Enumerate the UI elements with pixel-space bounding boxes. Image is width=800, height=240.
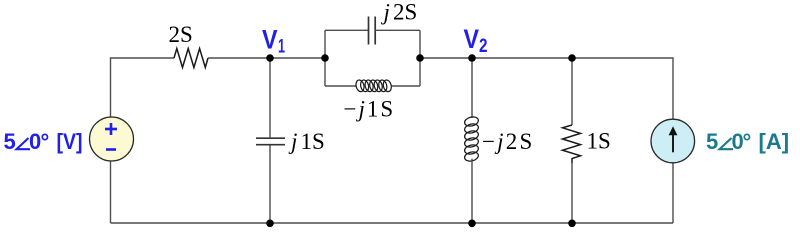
capacitor C j1S plates xyxy=(256,138,285,145)
angle symbol for [A] label xyxy=(720,138,734,149)
svg-text:°: ° xyxy=(41,129,50,154)
svg-text:0: 0 xyxy=(29,129,41,154)
wire V1 branch lower xyxy=(269,146,271,224)
inductor L -j2S coil xyxy=(464,116,480,163)
node V1 junction dot xyxy=(266,54,274,62)
label 5 angle 0 [A] xyxy=(706,129,789,154)
wire V1 to parallel block left xyxy=(270,57,325,59)
svg-text:[V]: [V] xyxy=(57,129,83,154)
wire 1S branch upper xyxy=(571,58,573,125)
svg-text:2S: 2S xyxy=(169,22,193,47)
svg-text:2S: 2S xyxy=(393,0,417,25)
wire parallel block right vertical xyxy=(419,30,421,86)
wire 1S node to top-right corner xyxy=(572,58,673,119)
node top 1S junction dot xyxy=(568,54,576,62)
voltage source VS circle xyxy=(90,117,134,161)
node bottom 1S junction dot xyxy=(568,220,576,228)
wire block right node to V2 xyxy=(420,57,472,59)
svg-text:2: 2 xyxy=(479,36,488,57)
wire V2 branch lower xyxy=(471,159,473,223)
svg-text:[A]: [A] xyxy=(759,129,790,154)
wire bottom branch right lead xyxy=(391,85,420,87)
inductor L -j1S coil xyxy=(355,79,393,92)
node bottom V2 junction dot xyxy=(468,220,476,228)
current source IS circle xyxy=(651,119,695,163)
svg-text:1S: 1S xyxy=(301,129,325,154)
wire bottom rail xyxy=(111,222,674,224)
resistor R 1S zigzag xyxy=(563,125,581,163)
svg-text:V: V xyxy=(464,24,480,54)
wire parallel block left vertical xyxy=(324,30,326,86)
current source arrow xyxy=(672,134,674,152)
node bottom V1 junction dot xyxy=(266,220,274,228)
svg-text:5: 5 xyxy=(706,129,718,154)
node block-left junction dot xyxy=(321,54,329,62)
wire V2 to 1S node xyxy=(472,57,572,59)
wire 1S branch lower xyxy=(571,163,573,223)
capacitor C j2S plates xyxy=(369,17,376,45)
node V2 junction dot xyxy=(468,54,476,62)
wire top-left: corner to resistor xyxy=(111,58,175,117)
voltage source minus sign xyxy=(106,148,116,151)
wire right vertical below source xyxy=(672,163,674,223)
svg-text:V: V xyxy=(262,25,278,55)
wire bottom branch left lead xyxy=(325,85,357,87)
voltage source plus sign xyxy=(105,123,117,135)
wire top branch right lead xyxy=(375,29,420,31)
wire V2 branch upper xyxy=(471,58,473,118)
svg-text:1S: 1S xyxy=(587,129,611,154)
svg-text:°: ° xyxy=(743,129,752,154)
angle symbol for [V] label xyxy=(17,138,31,149)
resistor R 2S zigzag xyxy=(174,49,208,68)
label 5 angle 0 [V] xyxy=(4,129,83,154)
svg-text:−j1S: −j1S xyxy=(344,97,396,122)
svg-text:−j2S: −j2S xyxy=(482,129,534,154)
wire left vertical below source xyxy=(110,162,112,224)
wire V1 branch upper xyxy=(269,58,271,137)
wire top branch left lead xyxy=(325,29,369,31)
wire resistor to node V1 xyxy=(208,57,270,59)
node block-right junction dot xyxy=(416,54,424,62)
svg-text:1: 1 xyxy=(278,37,285,58)
